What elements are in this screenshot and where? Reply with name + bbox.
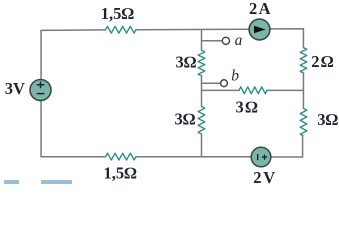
svg-text:V: V [263, 168, 275, 187]
resistor R bottom 1,5ohm [106, 153, 136, 160]
wire top middle [136, 28, 248, 31]
wire top right [271, 29, 303, 48]
wire middle vertical center [201, 76, 203, 107]
svg-text:1,5Ω: 1,5Ω [101, 4, 135, 23]
wire middle horizontal right [267, 89, 303, 91]
resistor R right 3ohm [300, 108, 307, 135]
resistor R top 1,5ohm [106, 26, 136, 33]
wire top left [41, 29, 106, 32]
resistor R middle horizontal 3ohm [239, 87, 267, 94]
svg-text:a: a [235, 32, 243, 49]
svg-text:2: 2 [249, 0, 257, 18]
terminal node b [221, 80, 228, 87]
svg-text:V: V [13, 79, 25, 98]
svg-text:1,5Ω: 1,5Ω [104, 163, 138, 182]
voltage source V2 2V [251, 147, 271, 167]
svg-text:2 Ω: 2 Ω [311, 52, 334, 71]
wire middle vertical lower [201, 134, 203, 157]
wire bottom right [271, 136, 303, 157]
wire right between 2ohm and mid node [302, 73, 304, 108]
voltage source V1 3V [30, 80, 51, 101]
wire left vertical [40, 30, 42, 156]
wire node b stub [202, 82, 221, 84]
svg-text:3: 3 [5, 79, 13, 98]
resistor R upper middle 3ohm [198, 50, 205, 76]
wire bottom middle [136, 156, 252, 158]
svg-text:3Ω: 3Ω [317, 110, 338, 129]
current source I1 2A [249, 19, 270, 40]
svg-text:3Ω: 3Ω [175, 110, 196, 129]
wire bottom left [41, 156, 106, 158]
svg-text:b: b [231, 67, 239, 84]
resistor R right 2ohm [300, 48, 307, 73]
wire middle vertical upper [201, 30, 203, 51]
svg-text:3 Ω: 3 Ω [236, 98, 259, 117]
resistor R lower middle 3ohm [198, 106, 205, 134]
wire middle horizontal left [202, 89, 240, 91]
svg-text:3Ω: 3Ω [176, 52, 197, 71]
svg-text:2: 2 [253, 168, 261, 187]
svg-text:A: A [259, 0, 271, 18]
terminal node a [222, 37, 229, 44]
highlight bar 1 [4, 180, 19, 183]
wire node a stub [202, 40, 223, 42]
highlight bar 2 [41, 180, 72, 183]
